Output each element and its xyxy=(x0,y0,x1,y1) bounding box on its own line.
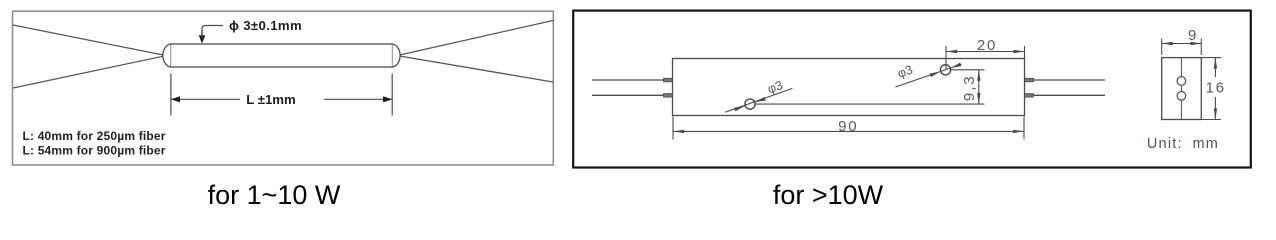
fiber stub right-upper xyxy=(1025,78,1034,82)
dim 9,3: bottom arrow xyxy=(977,93,980,104)
main block body xyxy=(673,59,1025,116)
end view lower hole xyxy=(1177,92,1186,101)
left hole leader line xyxy=(725,88,792,112)
dim 16: bottom arrow xyxy=(1214,109,1217,120)
fiber left-lower xyxy=(13,56,165,88)
fiber right-upper xyxy=(398,21,553,56)
output fiber upper xyxy=(1034,79,1106,81)
left hole arrow (points down-left at circle) xyxy=(755,97,766,102)
fiber stub right-lower xyxy=(1025,94,1034,98)
svg-text:L: 54mm for 900µm fiber: L: 54mm for 900µm fiber xyxy=(23,143,166,157)
dim 9,3: top extension from right hole xyxy=(951,69,985,71)
L dim arrow right xyxy=(383,96,392,102)
svg-text:L: 40mm for 250µm fiber: L: 40mm for 250µm fiber xyxy=(23,129,166,143)
svg-text:90: 90 xyxy=(838,118,858,135)
svg-text:16: 16 xyxy=(1206,79,1226,96)
dim 16: top arrow xyxy=(1214,58,1217,69)
svg-text:for 1~10 W: for 1~10 W xyxy=(208,180,341,210)
input fiber upper xyxy=(592,79,664,81)
dim 20: dimension line xyxy=(946,51,1025,53)
cylinder left cap xyxy=(163,44,171,67)
svg-text:ϕ 3±0.1mm: ϕ 3±0.1mm xyxy=(229,18,302,33)
dim 90: right extension xyxy=(1023,117,1025,140)
fiber stub left-lower xyxy=(664,94,673,98)
output fiber lower xyxy=(1034,94,1106,96)
end view centerline xyxy=(1180,58,1182,120)
svg-text:mm: mm xyxy=(1193,136,1220,152)
cylinder body xyxy=(171,44,393,67)
L dimension line left segment xyxy=(172,98,241,100)
L dimension line right segment xyxy=(324,98,392,100)
right hole xyxy=(940,65,950,75)
dim 16: dimension line upper xyxy=(1214,58,1216,77)
left panel frame xyxy=(13,11,554,165)
dim 9,3: dimension line xyxy=(978,70,980,104)
svg-text:9,3: 9,3 xyxy=(961,74,978,101)
svg-text:9: 9 xyxy=(1188,27,1196,44)
end view upper hole xyxy=(1177,77,1186,86)
right hole arrow (points down-left at circle) xyxy=(951,63,962,68)
input fiber lower xyxy=(592,94,664,96)
dim 90: left arrow xyxy=(673,130,684,133)
svg-text:L ±1mm: L ±1mm xyxy=(246,92,296,107)
end view body xyxy=(1162,58,1202,120)
fiber stub left-upper xyxy=(664,78,673,82)
cylinder right cap xyxy=(393,44,401,67)
svg-text:for >10W: for >10W xyxy=(773,180,884,210)
fiber left-upper xyxy=(13,25,165,55)
dim 20: extension line from block edge xyxy=(1024,46,1026,58)
right hole leader line xyxy=(895,64,961,87)
dim 90: dimension line xyxy=(673,130,1024,132)
dim 16: dimension line lower xyxy=(1214,97,1216,120)
dim 9,3: bottom extension from left hole xyxy=(756,103,985,105)
left hole arrow (points up-right at circle) xyxy=(734,106,745,111)
svg-text:Unit:: Unit: xyxy=(1147,136,1183,152)
dim 9: right arrow xyxy=(1190,42,1201,45)
dim 9: dimension line xyxy=(1162,43,1202,45)
dim 90: left extension xyxy=(672,117,674,140)
leader line for diameter label xyxy=(202,26,223,37)
right hole arrow (points up-right at circle) xyxy=(930,72,941,77)
leader arrowhead (down) xyxy=(199,35,206,43)
dim 9: right extension xyxy=(1200,39,1202,56)
L dimension extension line left xyxy=(170,74,172,116)
dim 9: left arrow xyxy=(1162,42,1173,45)
svg-text:20: 20 xyxy=(977,37,997,54)
dim 90: right arrow xyxy=(1013,130,1024,133)
dim 16: top extension xyxy=(1201,57,1221,59)
dim 20: right arrow xyxy=(1014,50,1025,53)
L dimension extension line right xyxy=(391,74,393,116)
dim 16: bottom extension xyxy=(1201,119,1221,121)
right panel frame xyxy=(573,11,1251,168)
L dim arrow left xyxy=(171,96,180,102)
fiber right-lower xyxy=(398,56,553,82)
dim 20: extension line from hole xyxy=(945,46,947,70)
left hole xyxy=(745,99,755,109)
dim 9: left extension xyxy=(1161,39,1163,56)
dim 9,3: top arrow xyxy=(977,70,980,81)
dim 20: left arrow xyxy=(946,50,957,53)
